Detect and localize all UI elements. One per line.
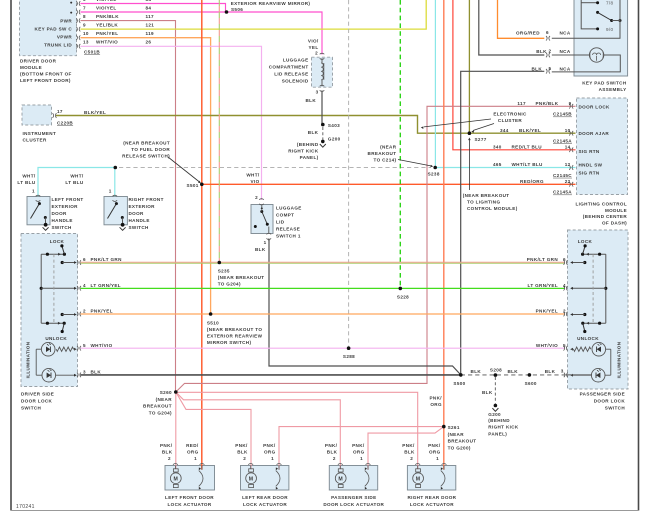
svg-text:BLK: BLK (162, 450, 173, 455)
wire PNK/BLK pin8 vertical to S260 (81, 21, 176, 392)
wire PNK/BLK S260 to RR pin2 (176, 392, 418, 469)
svg-text:S235: S235 (218, 268, 230, 273)
svg-text:LUGGAGE: LUGGAGE (283, 58, 309, 63)
LCM pin 9 connector (569, 104, 570, 109)
LEFT REAR DOOR motor symbol (248, 464, 253, 465)
wire BLK luggage switch to S500 (269, 240, 461, 375)
svg-text:DRIVER SIDE: DRIVER SIDE (21, 392, 54, 397)
svg-text:BREAKOUT: BREAKOUT (368, 151, 397, 156)
wire RED/ORG to LCM 22 (202, 183, 576, 185)
svg-text:BLK/YEL: BLK/YEL (84, 110, 106, 115)
keypad connector row6 (546, 36, 547, 41)
svg-text:LOCK: LOCK (578, 239, 593, 244)
LCM pin 12 connector (569, 165, 570, 170)
svg-text:M: M (416, 476, 421, 482)
svg-text:ILLUMINATION: ILLUMINATION (617, 341, 622, 378)
node S228 (399, 287, 403, 291)
svg-text:DRIVER DOOR: DRIVER DOOR (20, 59, 57, 64)
LCM pin 22 connector (569, 182, 570, 187)
svg-text:S288: S288 (343, 354, 355, 359)
svg-text:SIG RTN: SIG RTN (579, 170, 600, 175)
svg-text:3: 3 (83, 370, 86, 375)
svg-text:HANDLE: HANDLE (52, 218, 73, 223)
passenger switch pin 6 connector (564, 260, 565, 265)
svg-text:(NEAR: (NEAR (156, 397, 173, 402)
wire RED/LT BLU to LCM 14 (453, 0, 576, 150)
svg-text:344: 344 (500, 128, 509, 133)
svg-text:1: 1 (32, 188, 35, 193)
wire BLK luggage pin1 stub (268, 239, 270, 242)
svg-text:14: 14 (565, 145, 571, 150)
svg-text:S600: S600 (525, 381, 537, 386)
pin 10 DDM connector (76, 35, 77, 40)
svg-text:KEY PAD SWITCH: KEY PAD SWITCH (582, 81, 627, 86)
svg-text:170241: 170241 (16, 504, 35, 510)
svg-text:(NEAR: (NEAR (448, 432, 465, 437)
svg-text:PNK/LT GRN: PNK/LT GRN (527, 257, 559, 262)
wire RED/ORG vertical to LF actuator pin1 (201, 0, 203, 470)
left front exterior door handle switch box (27, 197, 50, 225)
driver lock switch symbol (41, 253, 64, 255)
svg-text:LT GRN/YEL: LT GRN/YEL (528, 283, 558, 288)
svg-text:RED/: RED/ (186, 443, 199, 448)
svg-text:BLK: BLK (471, 369, 482, 374)
svg-text:EXTERIOR: EXTERIOR (52, 204, 79, 209)
svg-text:S501: S501 (187, 183, 199, 188)
svg-text:PNK/: PNK/ (235, 443, 248, 448)
node S277 (468, 131, 472, 135)
svg-text:NCA: NCA (560, 67, 571, 72)
svg-text:BLK: BLK (532, 67, 543, 72)
svg-text:84: 84 (146, 0, 152, 2)
wire WHT/LT BLU vertical from top to S238 (434, 0, 436, 168)
svg-text:WHT/VIO: WHT/VIO (91, 343, 113, 348)
svg-text:2: 2 (410, 456, 413, 461)
arrow up to S277 (468, 140, 470, 191)
arrow to S238 (398, 160, 432, 167)
LCM pin 14 connector (569, 148, 570, 153)
svg-text:RIGHT FRONT: RIGHT FRONT (129, 197, 164, 202)
svg-text:2: 2 (255, 195, 258, 200)
wire ORG/RED keypad pin6 (498, 0, 545, 38)
svg-text:WHT/VIO: WHT/VIO (536, 343, 558, 348)
left rear door lock actuator box (241, 466, 289, 491)
svg-text:EXTERIOR REARVIEW: EXTERIOR REARVIEW (207, 333, 263, 338)
pin 17 connector (53, 113, 54, 118)
svg-text:26: 26 (146, 40, 152, 45)
svg-text:2: 2 (333, 456, 336, 461)
wire BLK dashed S208 to G200 (494, 377, 496, 404)
svg-text:TO G204): TO G204) (218, 281, 241, 286)
svg-text:(BEHIND: (BEHIND (488, 418, 510, 423)
svg-text:2: 2 (83, 309, 86, 314)
svg-text:COMPARTMENT: COMPARTMENT (269, 65, 309, 70)
passenger side door lock actuator box (329, 466, 377, 491)
svg-text:LID RELEASE: LID RELEASE (274, 72, 308, 77)
driver switch pin 4 connector (77, 286, 78, 291)
ground G200 behind right kick panel bottom (494, 404, 498, 408)
svg-text:RED/LT BLU: RED/LT BLU (512, 145, 543, 150)
LCM pin 10 connector (569, 131, 570, 136)
svg-text:C2145C: C2145C (553, 173, 572, 178)
svg-text:SIG RTN: SIG RTN (579, 149, 600, 154)
svg-text:G200: G200 (328, 136, 341, 141)
pin 9 DDM connector (76, 27, 77, 32)
svg-text:PNK/YEL: PNK/YEL (96, 31, 118, 36)
node S288 (347, 346, 351, 350)
wire BLK keypad pin2 from top (479, 0, 545, 55)
svg-text:PNK/: PNK/ (428, 443, 441, 448)
pin 7 DDM connector (76, 10, 77, 15)
svg-text:BLK: BLK (545, 369, 556, 374)
svg-text:BLK: BLK (404, 450, 415, 455)
svg-text:MODULE: MODULE (20, 65, 42, 70)
svg-text:HNDL SW: HNDL SW (579, 163, 603, 168)
svg-text:C220B: C220B (57, 120, 73, 125)
svg-text:VIO/: VIO/ (308, 38, 319, 43)
svg-text:S260: S260 (160, 390, 172, 395)
node S500 (459, 373, 463, 377)
solenoid coil (320, 53, 325, 54)
svg-text:COMPT: COMPT (276, 213, 294, 218)
svg-text:TO FUEL DOOR: TO FUEL DOOR (131, 147, 170, 152)
wire YEL/BLK pin9 (81, 0, 427, 29)
svg-text:VPWR: VPWR (57, 35, 73, 40)
svg-text:(BEHIND CENTER: (BEHIND CENTER (583, 214, 628, 219)
svg-text:9/0: 9/0 (606, 27, 614, 32)
page border bottom (11, 510, 639, 512)
svg-text:SWITCH: SWITCH (52, 225, 73, 230)
svg-text:DOOR AJAR: DOOR AJAR (579, 131, 610, 136)
node S238 (433, 166, 437, 170)
svg-text:DOOR LOCK: DOOR LOCK (594, 398, 626, 403)
passenger switch pin 5 connector (564, 346, 565, 351)
svg-text:17: 17 (57, 109, 63, 114)
wire PNK/LT GRN row green (81, 262, 565, 264)
passenger BLK pin3 stub into box (566, 374, 593, 376)
svg-text:(BEHIND: (BEHIND (297, 142, 319, 147)
wire WHT/LT BLU to LCM 12 (435, 167, 575, 169)
arrow to BLK/YEL bend (424, 119, 491, 127)
svg-text:YEL: YEL (309, 45, 319, 50)
svg-text:117: 117 (146, 14, 155, 19)
RIGHT FRONT handle switch symbol (113, 195, 118, 196)
svg-text:OF DASH): OF DASH) (602, 220, 627, 225)
svg-text:TO LIGHTING: TO LIGHTING (467, 199, 500, 204)
svg-text:BLK: BLK (306, 98, 317, 103)
svg-text:PNK/LT GRN: PNK/LT GRN (91, 257, 123, 262)
luggage compt lid release switch 1 box (251, 205, 273, 234)
wire WHT/LT BLU solid left (38, 168, 115, 197)
svg-text:RELEASE: RELEASE (276, 227, 300, 232)
wire BLK/YEL cluster to LCM (56, 116, 576, 134)
wire PNK/YEL row (81, 313, 565, 315)
svg-text:PNK/: PNK/ (402, 443, 415, 448)
svg-text:ORG: ORG (429, 450, 441, 455)
svg-text:TO G200): TO G200) (448, 445, 471, 450)
left front door lock actuator box (165, 466, 215, 491)
svg-text:C2145A: C2145A (553, 190, 572, 195)
wire BLK solenoid down (321, 91, 323, 125)
svg-text:M: M (338, 476, 343, 482)
passenger switch pin 2 connector (564, 312, 565, 317)
wire VIO/YEL pin6 (81, 4, 226, 13)
wire LT GRN/YEL row (81, 287, 565, 289)
svg-text:RED/ORG: RED/ORG (520, 179, 544, 184)
svg-text:WHT/VIO: WHT/VIO (96, 40, 118, 45)
keypad connector row2 (546, 53, 547, 58)
svg-text:SOLENOID: SOLENOID (282, 79, 309, 84)
svg-text:ORG: ORG (430, 402, 442, 407)
svg-text:2: 2 (168, 456, 171, 461)
svg-text:BLK: BLK (91, 370, 102, 375)
svg-text:DOOR LOCK: DOOR LOCK (579, 105, 611, 110)
svg-text:VIO: VIO (251, 179, 260, 184)
svg-text:BLK: BLK (255, 247, 266, 252)
ground G200 behind right kick panel top (321, 140, 325, 144)
wire BLK row driver pin3 to S500 (81, 374, 461, 376)
svg-text:9: 9 (569, 101, 572, 106)
driver side door lock switch box (21, 234, 78, 387)
svg-text:PNK/: PNK/ (263, 443, 276, 448)
svg-text:S261: S261 (448, 425, 460, 430)
svg-text:ORG/RED: ORG/RED (516, 31, 540, 36)
svg-text:BLK: BLK (536, 49, 547, 54)
svg-text:WHT/: WHT/ (22, 174, 36, 179)
svg-text:10: 10 (565, 128, 571, 133)
driver switch pin 5 connector (77, 346, 78, 351)
node S506 (225, 10, 229, 14)
svg-text:TRUNK LID: TRUNK LID (44, 43, 72, 48)
passenger lock switch symbol (583, 253, 606, 255)
svg-text:S510: S510 (207, 320, 219, 325)
svg-text:M: M (173, 476, 178, 482)
svg-text:BLK: BLK (237, 450, 248, 455)
svg-text:ELECTRONIC: ELECTRONIC (493, 112, 527, 117)
svg-text:PNK/: PNK/ (352, 443, 365, 448)
svg-text:6: 6 (546, 30, 549, 35)
svg-text:WHT/: WHT/ (70, 174, 84, 179)
svg-text:6: 6 (83, 0, 86, 2)
svg-text:PANEL): PANEL) (300, 155, 319, 160)
svg-text:UNLOCK: UNLOCK (577, 336, 599, 341)
PASSENGER SIDE motor symbol (338, 464, 343, 465)
svg-text:UNLOCK: UNLOCK (45, 336, 67, 341)
svg-text:PANEL): PANEL) (488, 431, 507, 436)
svg-text:NCA: NCA (560, 31, 571, 36)
page border right (638, 0, 640, 511)
svg-text:PNK/: PNK/ (160, 443, 173, 448)
passenger side door lock switch box (568, 230, 629, 389)
node S600 (528, 373, 532, 377)
wire BLK/YEL vertical from top to S277 (468, 0, 470, 133)
svg-text:7/8: 7/8 (606, 1, 614, 6)
svg-text:CLUSTER: CLUSTER (23, 138, 47, 143)
svg-text:LEFT FRONT DOOR: LEFT FRONT DOOR (165, 495, 214, 500)
lighting control module box (577, 98, 628, 195)
wire WHT/LT BLU drop right handle switch (114, 168, 116, 197)
svg-text:84: 84 (146, 5, 152, 10)
svg-text:1: 1 (271, 456, 274, 461)
svg-text:3: 3 (561, 368, 564, 373)
svg-text:SWITCH: SWITCH (605, 405, 626, 410)
key pad switch assembly box (574, 0, 628, 76)
svg-text:1: 1 (264, 240, 267, 245)
svg-text:EXTERIOR REARVIEW MIRROR): EXTERIOR REARVIEW MIRROR) (231, 1, 311, 6)
svg-text:22: 22 (565, 179, 571, 184)
wire PNK/YEL pin10 to S510 (81, 38, 211, 314)
svg-text:BLK/YEL: BLK/YEL (519, 128, 541, 133)
svg-text:CONTROL MODULE): CONTROL MODULE) (467, 206, 518, 211)
svg-text:KEY PAD SW C: KEY PAD SW C (35, 26, 73, 31)
svg-text:C2145B: C2145B (553, 112, 572, 117)
passenger switch pin 4 connector (564, 286, 565, 291)
keypad connector row5 (546, 69, 547, 74)
wire WHT/VIO dashed vertical to S288 (348, 0, 350, 348)
svg-text:LOCK ACTUATOR: LOCK ACTUATOR (243, 502, 287, 507)
svg-text:ORG: ORG (264, 450, 276, 455)
svg-text:PNK/BLK: PNK/BLK (536, 101, 559, 106)
wire PNK/BLK S260 to LF pin2 (175, 392, 177, 469)
wire PNK/BLK LCM9 via S260 (176, 106, 576, 392)
svg-text:12: 12 (565, 162, 571, 167)
node handle switch junction (114, 166, 118, 170)
svg-text:ASSEMBLY: ASSEMBLY (599, 87, 627, 92)
svg-text:1: 1 (360, 456, 363, 461)
svg-text:S403: S403 (328, 123, 340, 128)
svg-text:8: 8 (83, 14, 86, 19)
svg-text:6: 6 (83, 257, 86, 262)
pin 6 DDM connector (76, 1, 77, 6)
wire PNK/ORG S261 to LR pin1 (279, 427, 444, 470)
LEFT FRONT handle switch symbol (36, 195, 41, 196)
svg-text:ILLUMINATION: ILLUMINATION (26, 341, 31, 378)
svg-text:S208: S208 (490, 368, 502, 373)
wire LT GRN/YEL dashed vertical to S228 (399, 0, 401, 288)
passenger pin3 connector (564, 373, 565, 378)
svg-text:1: 1 (436, 456, 439, 461)
LEFT FRONT DOOR motor symbol (173, 464, 178, 465)
svg-text:(NEAR BREAKOUT: (NEAR BREAKOUT (123, 141, 170, 146)
svg-text:DOOR LOCK: DOOR LOCK (21, 399, 53, 404)
svg-text:SWITCH: SWITCH (129, 225, 150, 230)
svg-text:S238: S238 (428, 172, 440, 177)
svg-text:PNK/YEL: PNK/YEL (91, 309, 113, 314)
wire BLK keypad pin5 to S500 (461, 71, 545, 375)
node S261 (442, 425, 446, 429)
svg-text:9: 9 (83, 23, 86, 28)
svg-text:(NEAR BREAKOUT TO: (NEAR BREAKOUT TO (207, 327, 262, 332)
svg-text:BLK: BLK (482, 390, 493, 395)
svg-text:5: 5 (83, 343, 86, 348)
svg-text:117: 117 (517, 101, 526, 106)
node S403 (321, 123, 325, 127)
svg-text:PWR: PWR (60, 18, 72, 23)
svg-text:1: 1 (194, 456, 197, 461)
wire WHT/VIO row (81, 347, 565, 349)
svg-text:CLUSTER: CLUSTER (498, 118, 522, 123)
svg-text:RIGHT REAR DOOR: RIGHT REAR DOOR (407, 495, 456, 500)
svg-text:PASSENGER SIDE: PASSENGER SIDE (331, 495, 376, 500)
svg-text:5: 5 (563, 343, 566, 348)
wire PNK/ORG S261 to PS pin1 (368, 427, 444, 470)
svg-text:7: 7 (83, 5, 86, 10)
wire BLK dashed S500 to passenger pin3 (461, 374, 565, 376)
luggage compartment lid release solenoid box (312, 57, 333, 87)
svg-text:1: 1 (109, 188, 112, 193)
right front exterior door handle switch box (104, 197, 127, 225)
driver switch pin 2 connector (77, 312, 78, 317)
node S208 (494, 373, 498, 377)
svg-text:RIGHT KICK: RIGHT KICK (288, 149, 319, 154)
svg-text:YEL/BLK: YEL/BLK (96, 23, 118, 28)
svg-text:119: 119 (146, 31, 155, 36)
svg-text:LIGHTING CONTROL: LIGHTING CONTROL (575, 202, 627, 207)
svg-text:RIGHT KICK: RIGHT KICK (488, 425, 519, 430)
arrow to S501 (168, 157, 200, 182)
svg-text:(NEAR BREAKOUT: (NEAR BREAKOUT (463, 193, 510, 198)
svg-text:4: 4 (563, 283, 566, 288)
svg-text:G200: G200 (488, 412, 501, 417)
svg-text:ORG: ORG (353, 450, 365, 455)
keypad lamp (589, 48, 603, 62)
svg-text:SWITCH: SWITCH (21, 406, 42, 411)
pin 13 DDM connector (76, 44, 77, 49)
driver door module box (20, 0, 77, 56)
svg-text:C2145A: C2145A (553, 139, 572, 144)
svg-text:HANDLE: HANDLE (129, 218, 150, 223)
svg-text:LOCK ACTUATOR: LOCK ACTUATOR (410, 502, 454, 507)
svg-text:TO G204): TO G204) (149, 410, 172, 415)
driver switch pin 3 connector (77, 373, 78, 378)
svg-text:LEFT FRONT DOOR): LEFT FRONT DOOR) (20, 78, 71, 83)
svg-text:BREAKOUT: BREAKOUT (448, 439, 477, 444)
node S260 (174, 390, 178, 394)
svg-text:INSTRUMENT: INSTRUMENT (23, 131, 57, 136)
svg-text:465: 465 (493, 162, 502, 167)
svg-text:LT GRN/YEL: LT GRN/YEL (91, 283, 121, 288)
svg-text:PNK/BLK: PNK/BLK (96, 14, 119, 19)
svg-text:DOOR: DOOR (129, 211, 145, 216)
svg-text:340: 340 (493, 145, 502, 150)
svg-text:BLK: BLK (308, 130, 319, 135)
svg-text:DOOR LOCK ACTUATOR: DOOR LOCK ACTUATOR (323, 502, 384, 507)
svg-text:DOOR: DOOR (52, 211, 68, 216)
svg-text:121: 121 (146, 23, 155, 28)
RIGHT REAR DOOR motor symbol (415, 464, 420, 465)
wire PNK/LT GRN vertical at S235 a (218, 0, 220, 262)
svg-text:(NEAR: (NEAR (380, 145, 397, 150)
svg-text:13: 13 (83, 40, 89, 45)
svg-text:VIO/YEL: VIO/YEL (96, 0, 117, 2)
svg-text:3: 3 (316, 90, 319, 95)
wire PNK/LT GRN vertical at S235 b (218, 0, 220, 262)
svg-text:ORG: ORG (187, 450, 199, 455)
wire PNK/BLK S260 to LR pin2 (176, 392, 251, 469)
wire WHT/VIO pin13 to luggage switch (81, 46, 262, 200)
instrument cluster box (22, 105, 52, 125)
page border left (10, 0, 12, 511)
arrow to S277 (473, 124, 494, 131)
wire PNK/ORG vertical to RR actuator pin1 (443, 0, 445, 470)
svg-text:BLK: BLK (327, 450, 338, 455)
svg-text:LID: LID (276, 220, 285, 225)
svg-text:M: M (249, 476, 254, 482)
svg-text:LEFT FRONT: LEFT FRONT (52, 197, 84, 202)
svg-text:SWITCH 1: SWITCH 1 (276, 234, 301, 239)
svg-text:LUGGAGE: LUGGAGE (276, 206, 302, 211)
svg-text:(NEAR BREAKOUT: (NEAR BREAKOUT (218, 275, 265, 280)
